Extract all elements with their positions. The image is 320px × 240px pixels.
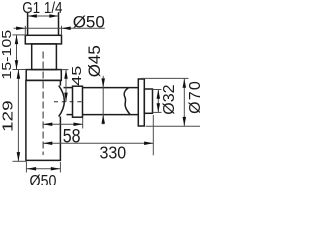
svg-text:Ø50: Ø50 <box>30 173 57 185</box>
svg-text:129: 129 <box>0 100 16 132</box>
svg-text:Ø32: Ø32 <box>161 84 178 114</box>
svg-text:Ø70: Ø70 <box>187 80 200 114</box>
svg-text:45: 45 <box>70 66 84 86</box>
svg-text:Ø45: Ø45 <box>85 45 104 77</box>
svg-text:330: 330 <box>100 143 127 163</box>
svg-text:15-105: 15-105 <box>0 30 14 80</box>
svg-text:Ø50: Ø50 <box>73 13 105 32</box>
svg-text:G1 1/4: G1 1/4 <box>22 0 62 17</box>
